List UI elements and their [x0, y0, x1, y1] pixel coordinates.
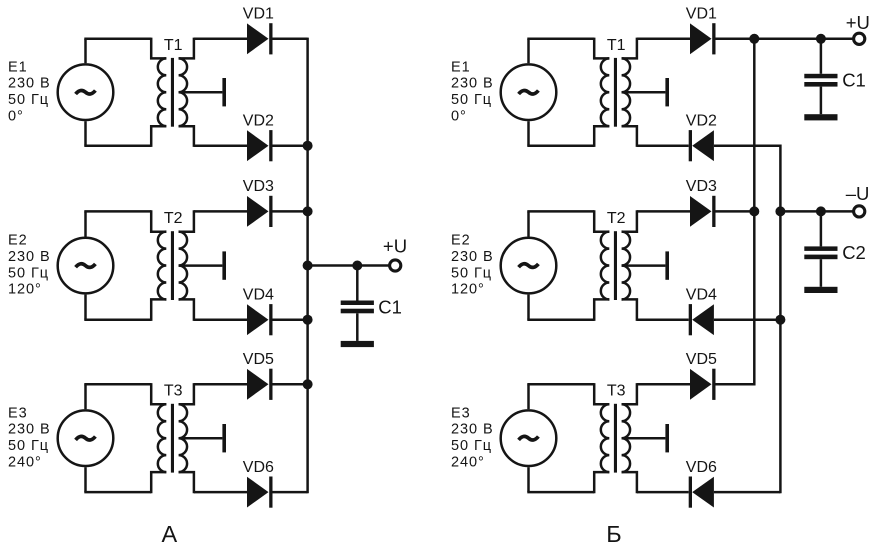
svg-text:E2: E2 [451, 233, 471, 249]
svg-text:VD4: VD4 [686, 287, 717, 304]
svg-text:50 Гц: 50 Гц [8, 92, 49, 108]
svg-text:T2: T2 [607, 210, 626, 227]
svg-text:+U: +U [846, 12, 870, 33]
svg-text:+U: +U [383, 236, 407, 257]
svg-text:50 Гц: 50 Гц [451, 265, 492, 281]
svg-text:50 Гц: 50 Гц [451, 92, 492, 108]
svg-text:C2: C2 [842, 242, 866, 263]
svg-text:50 Гц: 50 Гц [8, 265, 49, 281]
svg-text:240°: 240° [8, 454, 42, 470]
svg-text:50 Гц: 50 Гц [8, 438, 49, 454]
svg-text:VD4: VD4 [243, 287, 274, 304]
svg-text:VD1: VD1 [243, 6, 274, 23]
svg-text:230 В: 230 В [451, 422, 494, 438]
svg-text:T3: T3 [164, 383, 183, 400]
svg-text:E2: E2 [8, 233, 28, 249]
svg-text:А: А [161, 521, 177, 547]
svg-text:0°: 0° [451, 108, 467, 124]
svg-text:0°: 0° [8, 108, 24, 124]
svg-text:VD6: VD6 [686, 459, 717, 476]
svg-text:E3: E3 [8, 405, 28, 421]
svg-text:VD5: VD5 [243, 351, 274, 368]
svg-text:230 В: 230 В [8, 422, 51, 438]
svg-text:T3: T3 [607, 383, 626, 400]
svg-text:T2: T2 [164, 210, 183, 227]
svg-text:240°: 240° [451, 454, 485, 470]
svg-text:VD6: VD6 [243, 459, 274, 476]
svg-text:230 В: 230 В [8, 249, 51, 265]
svg-text:VD2: VD2 [243, 113, 274, 130]
svg-text:VD3: VD3 [243, 178, 274, 195]
svg-text:–U: –U [846, 183, 870, 204]
svg-text:C1: C1 [378, 296, 402, 317]
svg-text:VD5: VD5 [686, 351, 717, 368]
svg-text:50 Гц: 50 Гц [451, 438, 492, 454]
svg-text:E3: E3 [451, 405, 471, 421]
svg-text:Б: Б [606, 521, 621, 547]
svg-text:120°: 120° [8, 282, 42, 298]
svg-text:VD3: VD3 [686, 178, 717, 195]
svg-text:E1: E1 [451, 59, 471, 75]
svg-text:VD2: VD2 [686, 113, 717, 130]
svg-text:VD1: VD1 [686, 6, 717, 23]
svg-text:230 В: 230 В [451, 76, 494, 92]
svg-text:230 В: 230 В [451, 249, 494, 265]
svg-text:T1: T1 [164, 37, 183, 54]
svg-text:230 В: 230 В [8, 76, 51, 92]
svg-text:T1: T1 [607, 37, 626, 54]
svg-text:C1: C1 [842, 70, 866, 91]
svg-text:120°: 120° [451, 282, 485, 298]
svg-text:E1: E1 [8, 59, 28, 75]
